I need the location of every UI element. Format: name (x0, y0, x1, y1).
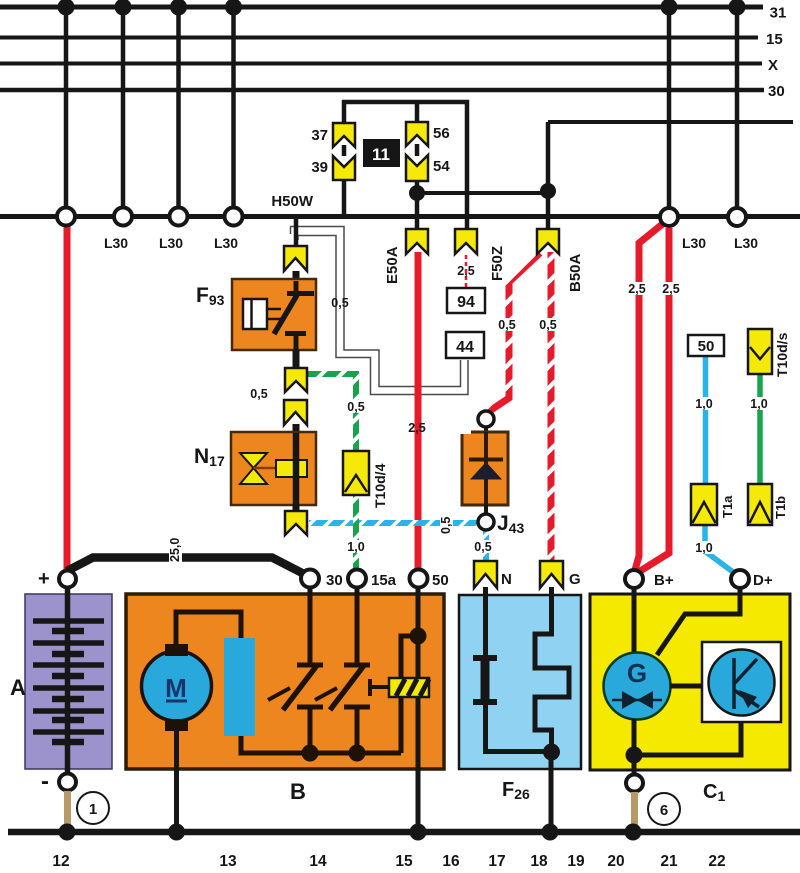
svg-text:L30: L30 (682, 235, 706, 251)
svg-text:G: G (627, 658, 647, 688)
svg-text:94: 94 (457, 294, 475, 311)
svg-text:T10d/s: T10d/s (774, 332, 790, 377)
svg-text:11: 11 (372, 145, 390, 164)
svg-text:17: 17 (488, 853, 505, 870)
svg-text:1,0: 1,0 (695, 541, 712, 555)
svg-text:54: 54 (433, 158, 450, 175)
svg-text:2,5: 2,5 (662, 282, 679, 296)
svg-text:G: G (569, 571, 581, 588)
svg-text:+: + (38, 568, 50, 590)
svg-text:L30: L30 (734, 235, 758, 251)
svg-text:15a: 15a (371, 572, 397, 589)
svg-text:0,5: 0,5 (439, 517, 453, 534)
svg-text:N: N (501, 571, 512, 588)
svg-text:1,0: 1,0 (695, 397, 712, 411)
svg-text:1,0: 1,0 (750, 397, 767, 411)
svg-text:15: 15 (766, 31, 783, 48)
svg-text:31: 31 (770, 4, 787, 21)
svg-text:T1b: T1b (773, 496, 788, 519)
svg-text:39: 39 (311, 159, 328, 176)
svg-text:L30: L30 (159, 235, 183, 251)
svg-text:50: 50 (432, 572, 449, 589)
svg-text:37: 37 (311, 127, 328, 144)
svg-text:T1a: T1a (720, 495, 735, 518)
svg-text:19: 19 (567, 853, 585, 870)
svg-text:L30: L30 (214, 235, 238, 251)
svg-text:21: 21 (660, 853, 678, 870)
svg-text:B: B (290, 779, 306, 804)
svg-text:0,5: 0,5 (250, 387, 267, 401)
svg-text:12: 12 (52, 853, 69, 870)
svg-text:30: 30 (326, 572, 343, 589)
svg-text:A: A (10, 675, 26, 700)
svg-text:20: 20 (607, 853, 624, 870)
svg-text:D+: D+ (753, 572, 773, 589)
svg-text:X: X (768, 57, 778, 74)
svg-text:E50A: E50A (384, 246, 401, 284)
svg-text:22: 22 (708, 853, 725, 870)
svg-text:13: 13 (219, 853, 237, 870)
svg-text:2,5: 2,5 (408, 421, 425, 435)
svg-text:L30: L30 (104, 235, 128, 251)
svg-text:0,5: 0,5 (539, 318, 556, 332)
svg-text:M: M (165, 673, 187, 703)
svg-text:F50Z: F50Z (489, 246, 506, 281)
svg-text:50: 50 (698, 338, 715, 355)
svg-text:1: 1 (89, 801, 97, 818)
svg-text:B+: B+ (654, 572, 674, 589)
svg-text:0,5: 0,5 (474, 540, 491, 554)
svg-text:15: 15 (395, 853, 413, 870)
svg-text:25,0: 25,0 (168, 538, 182, 562)
svg-text:H50W: H50W (271, 193, 314, 210)
svg-text:44: 44 (456, 339, 474, 356)
svg-text:16: 16 (442, 853, 460, 870)
svg-text:6: 6 (660, 802, 668, 819)
svg-text:0,5: 0,5 (347, 400, 364, 414)
svg-text:18: 18 (530, 853, 548, 870)
svg-text:14: 14 (309, 853, 327, 870)
svg-text:1,0: 1,0 (347, 540, 364, 554)
svg-text:56: 56 (433, 125, 450, 142)
svg-text:2,5: 2,5 (457, 264, 474, 278)
svg-text:2,5: 2,5 (628, 282, 645, 296)
svg-text:-: - (41, 768, 49, 795)
svg-text:0,5: 0,5 (498, 318, 515, 332)
svg-text:0,5: 0,5 (331, 296, 348, 310)
svg-text:B50A: B50A (567, 253, 584, 292)
svg-text:T10d/4: T10d/4 (372, 463, 388, 508)
svg-text:30: 30 (768, 83, 785, 100)
